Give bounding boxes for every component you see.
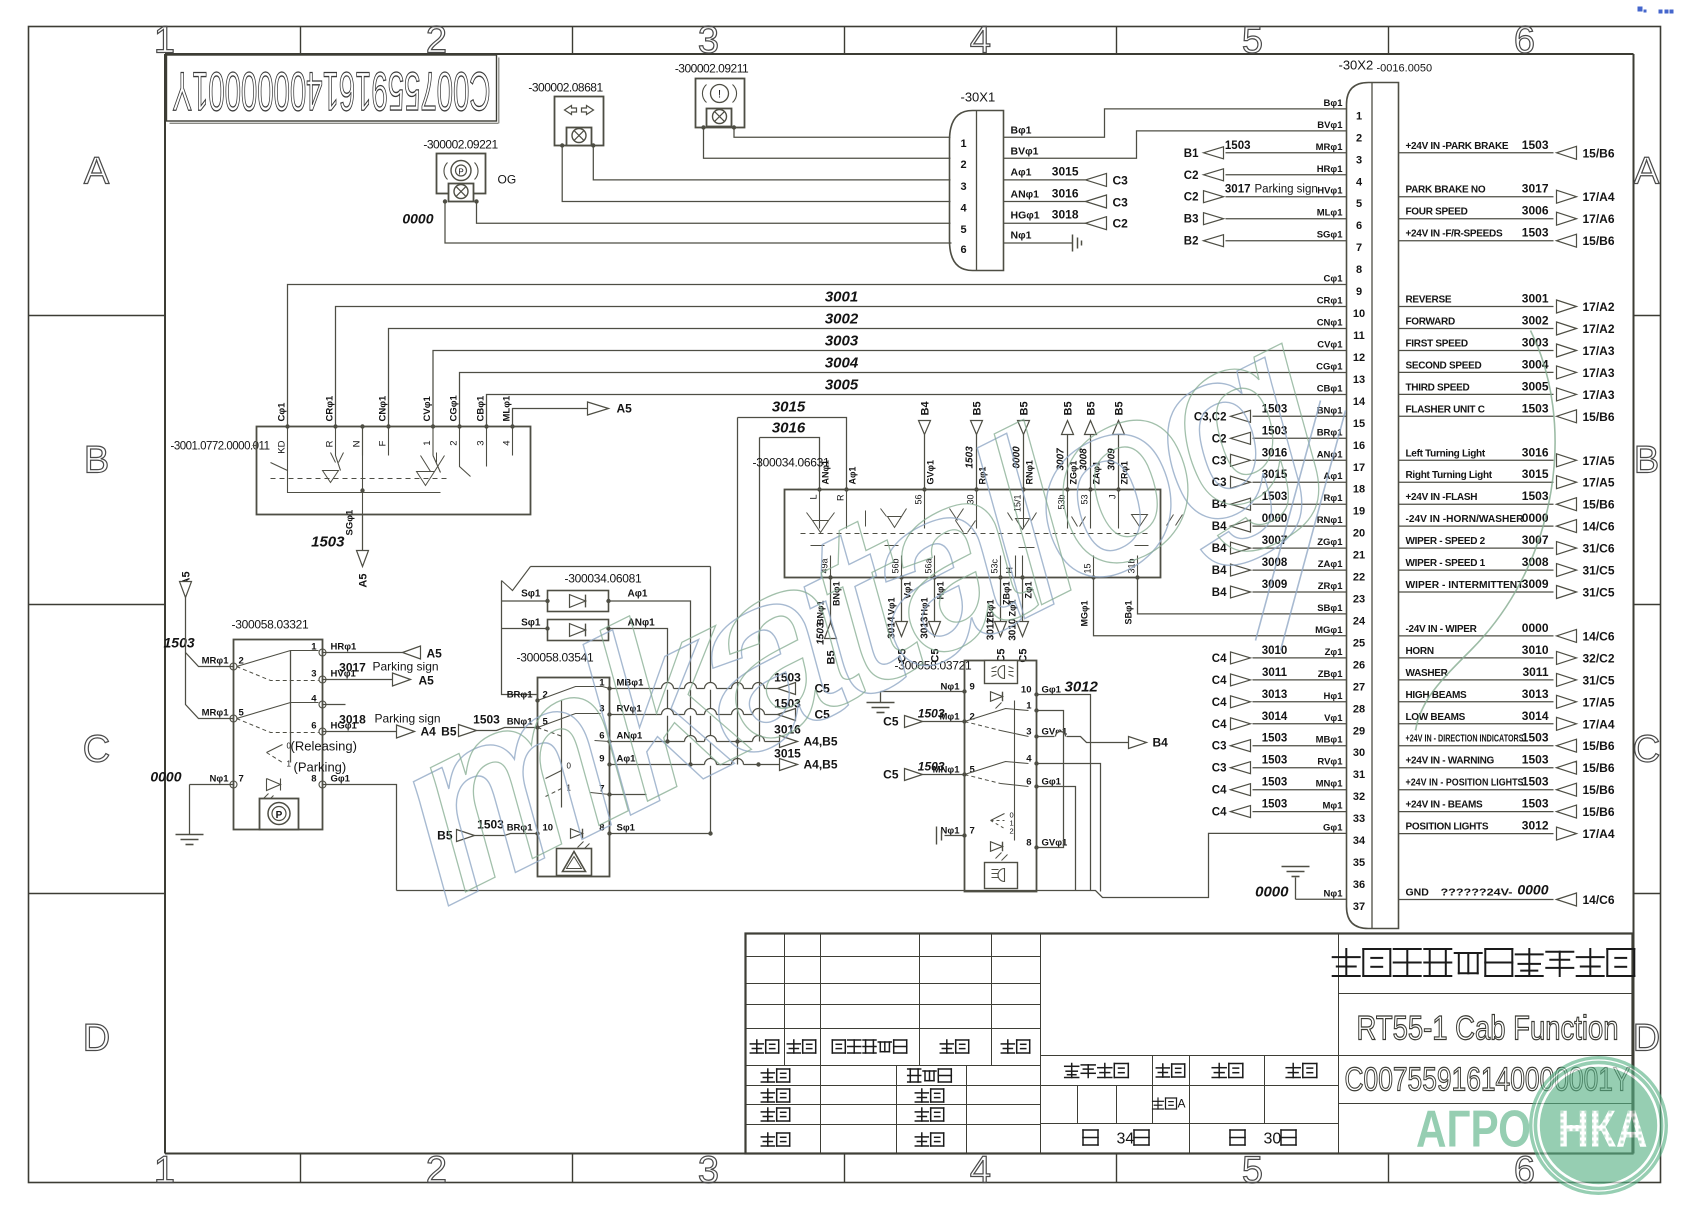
svg-text:1503: 1503 — [1262, 755, 1288, 767]
svg-text:5: 5 — [1242, 1150, 1263, 1192]
svg-text:15/B6: 15/B6 — [1583, 234, 1615, 248]
wire SG 1503 down to A5 — [362, 515, 364, 553]
svg-text:A: A — [84, 151, 110, 193]
svg-text:3017: 3017 — [1225, 184, 1251, 196]
svg-text:-300002.09211: -300002.09211 — [675, 62, 749, 76]
svg-text:MGφ1: MGφ1 — [1315, 625, 1343, 636]
svg-text:22: 22 — [1353, 572, 1365, 584]
svg-text:4: 4 — [970, 20, 991, 62]
combination switch top terminals — [817, 487, 821, 491]
svg-text:Gφ1: Gφ1 — [1323, 823, 1343, 834]
svg-text:P: P — [458, 168, 463, 177]
svg-text:17/A2: 17/A2 — [1583, 300, 1615, 314]
svg-text:3002: 3002 — [1522, 314, 1549, 328]
X1 pin5 wire HG 3018 to C2 — [1004, 222, 1086, 224]
watermark stray green hook right — [1416, 331, 1556, 731]
watermark mkatalog outline text green offset — [365, 262, 1362, 939]
svg-text:+24V IN -PARK BRAKE: +24V IN -PARK BRAKE — [1406, 141, 1509, 152]
wire lamp09221 pin6 N — [445, 202, 952, 244]
svg-text:11: 11 — [1353, 330, 1365, 342]
svg-text:АГРО: АГРО — [1416, 1101, 1531, 1159]
svg-text:31: 31 — [1353, 769, 1365, 781]
svg-text:8: 8 — [1026, 838, 1031, 849]
svg-text:-24V IN -HORN/WASHER: -24V IN -HORN/WASHER — [1406, 514, 1525, 525]
svg-text:12: 12 — [1353, 352, 1365, 364]
svg-text:WASHER: WASHER — [1406, 668, 1449, 679]
svg-text:PARK BRAKE NO: PARK BRAKE NO — [1406, 185, 1486, 196]
svg-text:C: C — [1633, 729, 1660, 771]
svg-text:C3: C3 — [1212, 763, 1227, 775]
combination top outgoing refs B5 wipers — [1067, 435, 1069, 490]
svg-text:C2: C2 — [1113, 217, 1129, 231]
svg-text:10: 10 — [1353, 308, 1365, 320]
svg-text:17: 17 — [1353, 462, 1365, 474]
combination switch box — [785, 490, 1161, 578]
wire A1 output down — [609, 601, 691, 765]
svg-text:2: 2 — [1356, 132, 1362, 144]
combination switch internal dashed bar — [801, 533, 1151, 535]
svg-text:32: 32 — [1353, 791, 1365, 803]
svg-text:3014: 3014 — [1262, 711, 1288, 723]
hazard switch indicator diode — [571, 829, 583, 839]
svg-text:3007: 3007 — [1522, 533, 1549, 547]
svg-text:C3: C3 — [1113, 196, 1129, 210]
wire pin3 HV 3017 Parking sign to A5 — [323, 679, 393, 681]
svg-text:THIRD SPEED: THIRD SPEED — [1406, 382, 1470, 393]
svg-text:3009: 3009 — [1522, 577, 1549, 591]
svg-text:3008: 3008 — [1522, 555, 1549, 569]
svg-text:C2: C2 — [1184, 192, 1199, 204]
svg-text:WIPER - SPEED 1: WIPER - SPEED 1 — [1406, 558, 1486, 569]
wire N pin7 to ground 0000 — [190, 784, 234, 786]
svg-text:7: 7 — [239, 774, 244, 785]
svg-text:RT55-1 Cab Function: RT55-1 Cab Function — [1357, 1010, 1619, 1048]
svg-text:Gφ1: Gφ1 — [1042, 685, 1062, 696]
3015 wire loop — [738, 418, 847, 490]
svg-text:4: 4 — [502, 441, 513, 446]
svg-text:1503: 1503 — [1522, 401, 1549, 415]
svg-text:16: 16 — [1353, 440, 1365, 452]
svg-text:F: F — [378, 440, 389, 446]
svg-text:-24V IN - WIPER: -24V IN - WIPER — [1406, 624, 1478, 635]
wire pin3 GV to B4 — [1037, 736, 1055, 738]
svg-text:+24V IN -F/R-SPEEDS: +24V IN -F/R-SPEEDS — [1406, 229, 1503, 240]
svg-text:2: 2 — [970, 712, 975, 723]
svg-text:24: 24 — [1353, 616, 1366, 628]
svg-text:D: D — [83, 1018, 110, 1060]
hazard switch left pins — [535, 698, 539, 702]
svg-text:CRφ1: CRφ1 — [1317, 296, 1344, 307]
svg-text:0000: 0000 — [150, 769, 181, 785]
svg-text:8: 8 — [1356, 264, 1362, 276]
svg-text:17/A5: 17/A5 — [1583, 695, 1615, 709]
svg-text:C3: C3 — [1212, 741, 1227, 753]
svg-text:C2: C2 — [1184, 170, 1199, 182]
svg-text:2: 2 — [960, 159, 966, 171]
svg-text:35: 35 — [1353, 857, 1365, 869]
X2 right side signal rows — [1399, 152, 1554, 154]
svg-text:15/B6: 15/B6 — [1583, 739, 1615, 753]
svg-text:-300002.08681: -300002.08681 — [528, 81, 603, 95]
svg-text:HRφ1: HRφ1 — [1317, 164, 1344, 175]
svg-text:3015: 3015 — [1522, 467, 1549, 481]
svg-text:MNφ1: MNφ1 — [1316, 779, 1344, 790]
svg-text:POSITION LIGHTS: POSITION LIGHTS — [1406, 822, 1489, 833]
svg-text:B1: B1 — [1184, 148, 1199, 160]
svg-text:+24V IN -FLASH: +24V IN -FLASH — [1406, 492, 1478, 503]
wire pin6 HG 3018 Parking sign to A4 — [323, 731, 397, 733]
svg-text:1503: 1503 — [1522, 775, 1549, 789]
svg-text:3: 3 — [311, 669, 316, 680]
svg-text:5: 5 — [1356, 198, 1362, 210]
wire lamp09221 pin5 HG — [477, 202, 951, 224]
current page cell — [1230, 1130, 1245, 1145]
svg-text:15/B6: 15/B6 — [1583, 761, 1615, 775]
svg-text:C4: C4 — [1212, 719, 1227, 731]
svg-text:15: 15 — [1353, 418, 1365, 430]
wire pin6 down — [1037, 787, 1076, 891]
svg-text:HORN: HORN — [1406, 646, 1434, 657]
svg-text:CNφ1: CNφ1 — [378, 395, 389, 422]
total pages cell — [1083, 1130, 1098, 1145]
F/R switch internal contacts — [271, 478, 451, 480]
light switch bottom icon — [985, 863, 1018, 889]
light switch LED bottom — [991, 842, 1003, 852]
svg-text:36: 36 — [1353, 879, 1365, 891]
svg-text:+24V IN - DIRECTION INDICATORS: +24V IN - DIRECTION INDICATORS — [1406, 734, 1524, 745]
wire pin4 down — [1037, 764, 1101, 892]
svg-text:(Parking): (Parking) — [294, 760, 347, 775]
parking switch LED — [267, 779, 281, 791]
svg-text:1503: 1503 — [164, 635, 195, 651]
svg-text:SGφ1: SGφ1 — [1317, 230, 1344, 241]
svg-text:1503: 1503 — [1225, 140, 1251, 152]
svg-text:3010: 3010 — [1522, 643, 1549, 657]
svg-text:WIPER - SPEED 2: WIPER - SPEED 2 — [1406, 536, 1486, 547]
svg-text:23: 23 — [1353, 594, 1365, 606]
svg-text:3017: 3017 — [339, 661, 366, 675]
combination switch bottom terminals — [828, 575, 832, 579]
svg-text:+24V IN - BEAMS: +24V IN - BEAMS — [1406, 800, 1484, 811]
svg-text:(Releasing): (Releasing) — [291, 739, 357, 754]
svg-text:3017: 3017 — [1522, 182, 1549, 196]
svg-text:B4: B4 — [920, 401, 932, 416]
svg-text:30: 30 — [1353, 747, 1365, 759]
svg-text:A5: A5 — [617, 402, 633, 416]
svg-text:BNφ1: BNφ1 — [1317, 405, 1344, 416]
svg-text:-300002.09221: -300002.09221 — [423, 138, 498, 152]
svg-text:Parking sign: Parking sign — [1255, 184, 1318, 196]
svg-text:MBφ1: MBφ1 — [1316, 735, 1344, 746]
svg-text:13: 13 — [1353, 374, 1365, 386]
svg-text:1503: 1503 — [1522, 797, 1549, 811]
svg-text:3: 3 — [960, 181, 966, 193]
tiny blue page marks top right — [1638, 7, 1674, 14]
svg-text:31/C6: 31/C6 — [1583, 542, 1615, 556]
svg-text:29: 29 — [1353, 725, 1365, 737]
wire hazard pin1 MB row — [610, 688, 778, 690]
svg-text:1503: 1503 — [1522, 138, 1549, 152]
svg-text:Zφ1: Zφ1 — [1325, 647, 1344, 658]
svg-text:3015: 3015 — [1052, 165, 1079, 179]
svg-text:SBφ1: SBφ1 — [1317, 603, 1343, 614]
svg-text:A: A — [1634, 151, 1660, 193]
svg-text:1503: 1503 — [918, 760, 945, 774]
svg-text:B: B — [1634, 440, 1659, 482]
svg-text:34: 34 — [1353, 835, 1366, 847]
svg-text:C5: C5 — [883, 768, 899, 782]
svg-text:3013: 3013 — [1522, 687, 1549, 701]
svg-text:HGφ1: HGφ1 — [1011, 210, 1040, 222]
svg-text:Right Turning Light: Right Turning Light — [1406, 470, 1493, 481]
svg-text:MRφ1: MRφ1 — [1316, 142, 1344, 153]
svg-text:B4: B4 — [1212, 587, 1227, 599]
svg-text:C4: C4 — [1212, 675, 1227, 687]
svg-text:??????24V-: ??????24V- — [1441, 887, 1514, 899]
svg-text:3: 3 — [698, 20, 719, 62]
svg-text:4: 4 — [970, 1150, 991, 1192]
svg-text:B4: B4 — [1153, 736, 1169, 750]
svg-text:P: P — [276, 810, 283, 821]
svg-text:C: C — [83, 729, 110, 771]
svg-text:17/A5: 17/A5 — [1583, 454, 1615, 468]
svg-text:MLφ1: MLφ1 — [1317, 208, 1344, 219]
svg-text:0000: 0000 — [1255, 884, 1289, 901]
svg-text:6: 6 — [960, 244, 966, 256]
svg-text:Nφ1: Nφ1 — [941, 826, 961, 837]
wire bus 3001 — [336, 307, 1347, 427]
svg-text:14/C6: 14/C6 — [1583, 520, 1615, 534]
svg-text:17/A4: 17/A4 — [1583, 190, 1615, 204]
svg-text:18: 18 — [1353, 484, 1365, 496]
svg-text:RVφ1: RVφ1 — [1317, 757, 1343, 768]
svg-text:8: 8 — [311, 774, 316, 785]
svg-text:FIRST SPEED: FIRST SPEED — [1406, 339, 1468, 350]
svg-text:1: 1 — [1356, 110, 1362, 122]
svg-text:17/A3: 17/A3 — [1583, 366, 1615, 380]
svg-text:17/A3: 17/A3 — [1583, 388, 1615, 402]
X1 pin4 wire AN 3016 to C3 — [1004, 201, 1086, 203]
svg-text:3004: 3004 — [825, 355, 859, 372]
wire ML to A5 arrow — [513, 409, 595, 427]
X1 pin6 wire N to ground — [1004, 242, 1073, 244]
svg-text:-30X2: -30X2 — [1339, 58, 1374, 73]
parking switch contacts — [237, 651, 319, 667]
X2 left stubs pins 3-7 — [1226, 152, 1347, 154]
svg-text:0000: 0000 — [1522, 621, 1549, 635]
wire hazard pin9 A row 3015 — [610, 764, 780, 766]
svg-text:MRφ1: MRφ1 — [202, 708, 230, 719]
svg-text:32/C2: 32/C2 — [1583, 651, 1615, 665]
wire bus 3003 — [433, 351, 1347, 427]
wire lamp08681 pin3 — [593, 146, 950, 180]
svg-text:26: 26 — [1353, 659, 1365, 671]
wire AN1 output down — [609, 629, 668, 742]
svg-text:C4: C4 — [1212, 697, 1227, 709]
wire lamp09211 pin2 — [704, 128, 951, 159]
wire 49a BN down to B5 ref — [830, 578, 832, 629]
watermark stray blue diagonals — [1256, 401, 1346, 651]
sheet version cell — [1153, 1098, 1177, 1109]
svg-text:C4: C4 — [1212, 807, 1227, 819]
svg-text:19: 19 — [1353, 506, 1365, 518]
svg-text:WIPER - INTERMITTENT: WIPER - INTERMITTENT — [1406, 580, 1524, 591]
svg-text:CGφ1: CGφ1 — [449, 394, 460, 421]
svg-text:Cφ1: Cφ1 — [1324, 274, 1344, 285]
svg-text:3016: 3016 — [1522, 445, 1549, 459]
svg-text:-30X1: -30X1 — [961, 90, 996, 105]
svg-text:1503: 1503 — [1522, 226, 1549, 240]
svg-text:Gφ1: Gφ1 — [1042, 777, 1062, 788]
svg-text:28: 28 — [1353, 703, 1365, 715]
3016 wire loop — [760, 438, 820, 490]
svg-text:-3001.0772.0000.011: -3001.0772.0000.011 — [171, 441, 270, 453]
svg-text:Hφ1: Hφ1 — [1324, 691, 1344, 702]
X1 pin2 wire BV to X2 — [1004, 131, 1347, 158]
svg-text:Nφ1: Nφ1 — [210, 774, 230, 785]
combination top incoming refs B4/B5 — [924, 435, 926, 490]
parking switch right pins — [319, 649, 326, 656]
svg-text:30: 30 — [1264, 1131, 1282, 1148]
svg-text:-0016.0050: -0016.0050 — [1377, 63, 1433, 75]
company block — [1338, 934, 1340, 1154]
wire hazard pin6 AN row 3016 — [610, 741, 780, 743]
wire bus 3004 — [460, 373, 1347, 427]
svg-text:5: 5 — [960, 224, 966, 236]
light switch position marks 0 1 2 — [991, 814, 1005, 821]
row zone ticks left/right — [29, 315, 166, 317]
svg-text:34: 34 — [1117, 1131, 1135, 1148]
svg-text:15/B6: 15/B6 — [1583, 805, 1615, 819]
svg-text:Sφ1: Sφ1 — [521, 589, 541, 600]
svg-text:33: 33 — [1353, 813, 1365, 825]
wire hazard pin3 RV row — [610, 714, 778, 716]
svg-text:3001: 3001 — [1522, 292, 1549, 306]
wire pin8 G down to bottom bus — [323, 785, 397, 891]
svg-text:-300058.03321: -300058.03321 — [232, 618, 309, 632]
watermark mkatalog outline text blue — [348, 276, 1345, 953]
combination switch internal contacts — [807, 509, 1183, 548]
parking switch left pins — [230, 663, 237, 670]
svg-text:Bφ1: Bφ1 — [1324, 98, 1344, 109]
light switch top icon — [985, 661, 1018, 684]
ground symbol parking switch — [176, 835, 204, 845]
wire pin4 stub — [323, 704, 346, 706]
svg-text:Bφ1: Bφ1 — [1011, 125, 1032, 137]
svg-text:BVφ1: BVφ1 — [1011, 146, 1039, 158]
svg-text:НКА: НКА — [1558, 1101, 1648, 1159]
wire SB to X2 pin24 — [1138, 578, 1347, 614]
bottom bus wire 3012/G net — [397, 833, 1347, 897]
light switch contacts — [965, 709, 1029, 722]
svg-text:ZAφ1: ZAφ1 — [1318, 559, 1343, 570]
svg-text:ANφ1: ANφ1 — [1011, 189, 1040, 201]
wire pin1 to pin8 vertical — [1037, 711, 1064, 848]
svg-text:C3: C3 — [1113, 174, 1129, 188]
svg-text:37: 37 — [1353, 901, 1365, 913]
hazard switch right pins — [607, 686, 611, 690]
svg-text:LOW BEAMS: LOW BEAMS — [1406, 712, 1466, 723]
svg-text:0000: 0000 — [1517, 882, 1548, 898]
svg-text:MLφ1: MLφ1 — [502, 395, 513, 422]
svg-text:14/C6: 14/C6 — [1583, 893, 1615, 907]
svg-text:17/A3: 17/A3 — [1583, 344, 1615, 358]
svg-text:17/A4: 17/A4 — [1583, 827, 1615, 841]
border frame inner — [165, 53, 1634, 55]
svg-text:31/C5: 31/C5 — [1583, 564, 1615, 578]
svg-text:3013: 3013 — [1262, 689, 1288, 701]
svg-text:CNφ1: CNφ1 — [1317, 318, 1344, 329]
svg-text:1: 1 — [287, 760, 292, 769]
F/R switch internal bottom bar — [288, 471, 441, 493]
svg-text:Nφ1: Nφ1 — [1324, 889, 1344, 900]
wire lamp08681 pin4 — [562, 146, 950, 202]
svg-text:CVφ1: CVφ1 — [422, 396, 433, 422]
svg-text:ZGφ1: ZGφ1 — [1317, 537, 1343, 548]
svg-text:REVERSE: REVERSE — [1406, 295, 1452, 306]
title block revision table — [746, 956, 1041, 958]
svg-text:31/C5: 31/C5 — [1583, 673, 1615, 687]
light switch LED top — [991, 692, 1003, 702]
svg-text:C00755916140000001Y: C00755916140000001Y — [173, 61, 491, 123]
svg-text:1503: 1503 — [311, 534, 345, 551]
svg-text:27: 27 — [1353, 681, 1365, 693]
svg-text:21: 21 — [1353, 550, 1365, 562]
svg-text:ZRφ1: ZRφ1 — [1318, 581, 1343, 592]
X2 pin37 GND row — [1399, 899, 1554, 901]
svg-text:1503: 1503 — [1262, 777, 1288, 789]
svg-text:3009: 3009 — [1262, 579, 1288, 591]
svg-text:3011: 3011 — [1522, 665, 1548, 679]
company name (Zoomlion CJK) — [1333, 949, 1635, 976]
svg-text:B: B — [84, 440, 109, 482]
svg-text:BVφ1: BVφ1 — [1317, 120, 1343, 131]
diode D2 box — [548, 620, 609, 641]
svg-text:3014: 3014 — [1522, 709, 1549, 723]
wire bus C KD up — [288, 285, 1347, 427]
svg-text:17/A2: 17/A2 — [1583, 322, 1615, 336]
svg-text:1503: 1503 — [1522, 731, 1549, 745]
svg-text:R: R — [325, 440, 336, 447]
svg-text:Cφ1: Cφ1 — [277, 402, 288, 422]
svg-text:Vφ1: Vφ1 — [1324, 713, 1343, 724]
svg-text:HRφ1: HRφ1 — [331, 642, 358, 653]
svg-text:3: 3 — [1356, 154, 1362, 166]
parking switch position marks (Releasing)/(Parking) — [267, 745, 283, 753]
svg-text:15/B6: 15/B6 — [1583, 146, 1615, 160]
svg-text:7: 7 — [1356, 242, 1362, 254]
svg-text:HIGH BEAMS: HIGH BEAMS — [1406, 690, 1468, 701]
svg-text:17/A6: 17/A6 — [1583, 212, 1615, 226]
svg-text:4: 4 — [1356, 176, 1363, 188]
wire hazard pin7 stub — [610, 794, 647, 796]
diode D1 box — [548, 591, 609, 612]
svg-text:Nφ1: Nφ1 — [1011, 230, 1032, 242]
svg-text:ZBφ1: ZBφ1 — [1318, 669, 1343, 680]
svg-text:+24V IN - WARNING: +24V IN - WARNING — [1406, 756, 1495, 767]
barcode box — [167, 55, 497, 121]
svg-text:FLASHER UNIT C: FLASHER UNIT C — [1406, 404, 1485, 415]
svg-text:2: 2 — [449, 441, 460, 446]
svg-text:3001: 3001 — [825, 289, 858, 306]
svg-text:CBφ1: CBφ1 — [476, 395, 487, 422]
svg-text:25: 25 — [1353, 637, 1365, 649]
svg-text:CVφ1: CVφ1 — [1317, 340, 1343, 351]
hazard triangle symbol — [557, 849, 592, 876]
svg-text:KD: KD — [277, 440, 288, 453]
X2 left stubs pins 15-33 — [1253, 415, 1347, 417]
svg-text:1503: 1503 — [1262, 733, 1288, 745]
